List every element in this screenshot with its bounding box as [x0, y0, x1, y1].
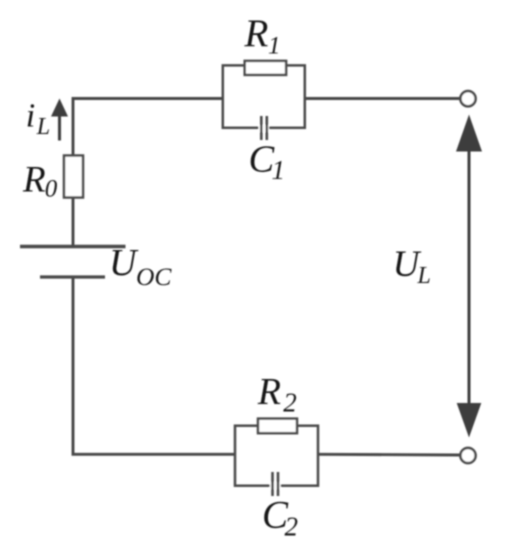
label iL	[26, 98, 50, 140]
svg-text:2: 2	[283, 387, 297, 417]
svg-text:R: R	[244, 12, 269, 55]
label R0	[22, 159, 58, 202]
resistor R0	[64, 156, 83, 198]
svg-text:L: L	[417, 263, 431, 289]
wire bottom horizontal right segment	[318, 453, 460, 457]
terminal node bottom-right	[460, 448, 475, 463]
svg-text:OC: OC	[136, 262, 172, 291]
svg-text:1: 1	[272, 155, 286, 185]
svg-text:1: 1	[268, 33, 281, 60]
svg-text:R: R	[257, 371, 281, 413]
voltage arrow U_L double-headed	[456, 115, 482, 438]
svg-text:0: 0	[45, 176, 58, 203]
svg-text:R: R	[22, 159, 46, 200]
battery U_OC plate short	[40, 275, 105, 278]
capacitor C2	[270, 472, 281, 496]
label R1	[244, 12, 281, 60]
svg-text:i: i	[26, 98, 35, 135]
wire bottom horizontal left segment	[73, 277, 234, 454]
wire top horizontal right segment	[305, 97, 460, 100]
svg-text:L: L	[36, 114, 50, 140]
battery U_OC plate long	[20, 245, 126, 248]
terminal node top-right	[460, 91, 475, 106]
RC block 1 rectangle	[223, 65, 305, 127]
svg-text:U: U	[109, 242, 139, 284]
label U_L	[393, 244, 431, 289]
capacitor C1	[259, 116, 270, 140]
resistor R1	[245, 61, 286, 75]
RC block 2 rectangle	[235, 426, 318, 486]
label C2	[262, 494, 298, 542]
wire top horizontal left segment	[73, 99, 223, 248]
svg-text:2: 2	[285, 512, 299, 542]
label C1	[249, 139, 286, 186]
label U_OC	[109, 242, 172, 291]
current arrow iL	[51, 99, 68, 141]
resistor R2	[258, 419, 297, 434]
label R2	[257, 371, 297, 417]
